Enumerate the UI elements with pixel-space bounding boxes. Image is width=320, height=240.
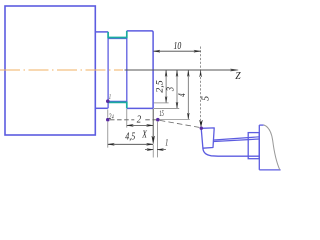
svg-text:3: 3 [166, 87, 177, 92]
tool insert [201, 128, 214, 148]
witness line for 4 [160, 118, 190, 120]
svg-text:4,5: 4,5 [125, 131, 135, 142]
dim 2 [127, 124, 153, 126]
tool shank top line A [214, 137, 259, 140]
svg-text:1: 1 [165, 139, 168, 149]
workpiece left section bottom edge [95, 107, 108, 109]
Z axis [125, 69, 237, 71]
dashed line 24 to 15 [110, 119, 156, 121]
extension below groove right edge [126, 109, 128, 128]
tool shank bottom with radius [203, 148, 260, 156]
centerline [0, 69, 123, 71]
teal machined step bottom [108, 102, 127, 108]
turret torn edge curve [264, 125, 280, 170]
workpiece right section top edge and end face [127, 31, 153, 109]
dim 4,5 [108, 143, 153, 145]
dim 1 (outside arrows) [145, 149, 166, 151]
svg-text:15: 15 [159, 109, 164, 118]
extension below point 15 [157, 122, 159, 158]
svg-text:4: 4 [177, 93, 188, 96]
svg-text:5: 5 [201, 96, 212, 101]
workpiece right section bottom edge [127, 107, 153, 109]
dim line 5 (vertical, also extension of dim 10) [200, 47, 202, 123]
point 1 dot [106, 99, 110, 103]
dim line 2,5 (vertical) [165, 71, 167, 103]
dim 10 [154, 50, 201, 52]
turret bottom edge [259, 169, 280, 171]
groove left edge (full diameter line) [107, 32, 109, 108]
turret piece left edge [258, 125, 260, 170]
dim line 4 (vertical) [187, 71, 189, 119]
workpiece left section top edge [95, 31, 108, 33]
tool tip dot [200, 127, 203, 130]
turret top edge [259, 124, 263, 126]
svg-text:2,5: 2,5 [155, 80, 165, 93]
teal machined step top [108, 31, 127, 38]
groove bottom blue fringe bottom [108, 100, 127, 102]
leader 15 to tool tip [160, 120, 200, 127]
svg-text:10: 10 [174, 40, 182, 52]
point 24 dot [106, 118, 110, 122]
tool shank top line B [214, 139, 259, 142]
tool clamp block [248, 133, 259, 159]
chuck [5, 6, 95, 135]
svg-text:X: X [141, 130, 147, 141]
svg-text:1: 1 [109, 92, 111, 101]
svg-text:Z: Z [235, 70, 241, 82]
X axis [152, 109, 154, 140]
point 15 dot [156, 118, 160, 122]
witness line for 2,5 [154, 102, 169, 104]
dim line 3 (vertical) [176, 71, 178, 108]
witness line for 3 [154, 107, 179, 109]
extension below point 24 [107, 110, 109, 148]
groove bottom blue fringe top [108, 38, 127, 40]
groove right edge (full diameter line) [126, 31, 128, 109]
svg-text:2: 2 [137, 114, 142, 125]
